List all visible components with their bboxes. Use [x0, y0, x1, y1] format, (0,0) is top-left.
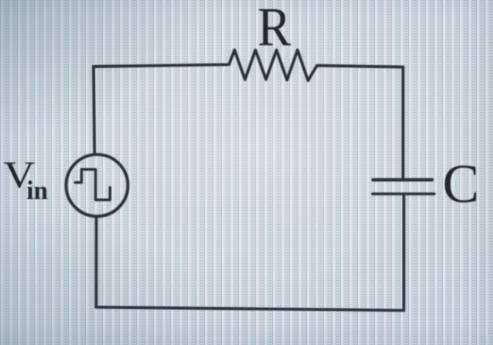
svg-text:C: C — [443, 153, 480, 214]
svg-text:R: R — [258, 0, 292, 57]
svg-text:in: in — [27, 176, 49, 205]
